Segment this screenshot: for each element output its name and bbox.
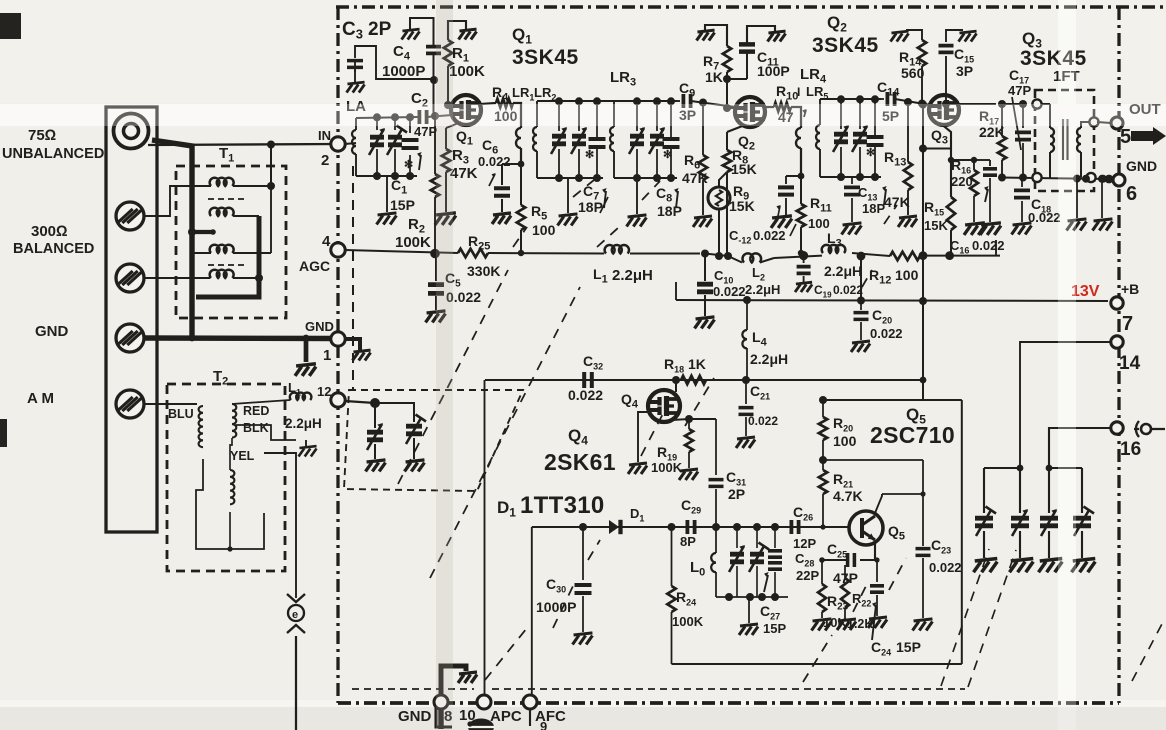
- C4 top ground: [402, 29, 420, 39]
- junction LR1: [518, 161, 525, 168]
- wire APC: [484, 380, 486, 695]
- junction C20b: [857, 252, 866, 261]
- svg-text:GND: GND: [1126, 158, 1157, 174]
- pin IN 2: [331, 137, 345, 151]
- T1 core line 2: [208, 264, 245, 266]
- junction drain R17: [998, 100, 1006, 108]
- tank LR4 LR5 element var: [840, 99, 842, 129]
- svg-text:5: 5: [1120, 126, 1131, 148]
- svg-text:100: 100: [833, 433, 857, 449]
- T2 winding YEL: [230, 470, 234, 504]
- svg-text:2P: 2P: [728, 486, 745, 502]
- capacitor C2: [419, 110, 426, 124]
- wire C26 to Q5: [799, 526, 849, 528]
- svg-text:0.022: 0.022: [753, 228, 786, 243]
- junction R20 R21: [819, 456, 827, 464]
- junction C4: [430, 76, 438, 84]
- capacitor C23: [922, 494, 924, 546]
- junction C20: [857, 297, 865, 305]
- pin 7: [1111, 297, 1123, 309]
- svg-text:e: e: [292, 609, 298, 621]
- connector blob: [468, 719, 494, 730]
- svg-text:100P: 100P: [757, 63, 790, 79]
- coax connector 75-ohm: [114, 114, 149, 149]
- tank LR3 element cap: [670, 101, 672, 131]
- svg-text:GND: GND: [398, 708, 432, 725]
- resistor R11: [797, 204, 805, 227]
- wire L3 to R12: [852, 253, 890, 256]
- C11 ground: [768, 31, 786, 41]
- svg-text:47P: 47P: [1008, 83, 1031, 98]
- T1 winding 2: [210, 208, 234, 216]
- L0 tank varcap: [736, 527, 738, 548]
- capacitor C4: [426, 47, 441, 54]
- capacitor C10: [704, 254, 706, 282]
- tank LA arrow: [419, 155, 421, 170]
- T1 winding 1 leads: [233, 185, 271, 187]
- inductor L0: [715, 527, 717, 553]
- svg-text:GND: GND: [35, 323, 69, 340]
- resistor R12: [890, 252, 920, 260]
- svg-text:UNBALANCED: UNBALANCED: [2, 146, 104, 162]
- svg-text:✻: ✻: [585, 149, 594, 161]
- tank LR4 LR5 element cap: [874, 99, 876, 129]
- capacitor C11: [739, 44, 755, 51]
- resistor R5: [520, 164, 522, 205]
- svg-text:100: 100: [808, 216, 830, 231]
- scan mark top-left: [0, 13, 21, 39]
- svg-text:3SK45: 3SK45: [812, 34, 879, 57]
- T1 inner dot: [267, 182, 275, 190]
- svg-text:2.2μH: 2.2μH: [824, 263, 862, 279]
- svg-text:330K: 330K: [467, 263, 500, 279]
- R1 top wire: [448, 21, 466, 40]
- svg-text:0.022: 0.022: [929, 560, 962, 575]
- C12 arrow: [778, 206, 780, 216]
- wire C2 to Q1: [427, 115, 452, 117]
- capacitor C26: [791, 520, 798, 534]
- resistor R19: [688, 419, 690, 429]
- osc ground line: [672, 663, 962, 665]
- pin 5 OUT: [1111, 117, 1123, 129]
- T1 right branch dot: [255, 274, 263, 282]
- slash C7: [600, 197, 608, 213]
- wire R12 right: [920, 255, 1000, 257]
- C24 arrow: [872, 605, 876, 640]
- tank LR4 LR5 coil: [819, 99, 821, 125]
- svg-text:18P: 18P: [657, 203, 682, 219]
- ground R16 C16: [964, 223, 985, 235]
- T1 inner vertical: [270, 145, 272, 254]
- resistor R24: [671, 527, 673, 586]
- junction C21: [742, 376, 750, 384]
- capacitor C29: [687, 520, 694, 534]
- svg-text:1K: 1K: [705, 69, 723, 85]
- svg-text:100K: 100K: [672, 614, 704, 629]
- svg-text:BLU: BLU: [168, 407, 194, 421]
- tank LR3 coil: [613, 101, 615, 127]
- screw terminal AM: [116, 390, 144, 418]
- svg-text:2.2μH: 2.2μH: [612, 267, 653, 284]
- C3 top wire: [355, 46, 434, 79]
- pin 16: [1111, 422, 1123, 434]
- gang dashed diagonals: [398, 180, 906, 682]
- T1 winding 4: [210, 270, 234, 278]
- svg-text:1K: 1K: [688, 356, 706, 372]
- capacitor C21 sym: [745, 380, 747, 404]
- svg-text:0.022: 0.022: [870, 326, 903, 341]
- svg-text:A M: A M: [27, 390, 54, 407]
- inductor L1 am: [290, 393, 312, 400]
- svg-text:100K: 100K: [651, 460, 683, 475]
- wire IN to tank: [345, 143, 356, 144]
- tank LR3 rails: [614, 100, 677, 102]
- svg-text:15K: 15K: [729, 198, 755, 214]
- C3 ground: [354, 70, 356, 82]
- tank LA coil: [352, 130, 356, 154]
- tank LA trimmer: [394, 117, 396, 130]
- screw terminal 300-ohm B: [116, 264, 144, 292]
- tank LR4 arrow: [884, 189, 886, 205]
- wire AFC: [531, 527, 533, 695]
- capacitor C25: [848, 553, 855, 567]
- capacitor C12 sym: [785, 176, 787, 184]
- wire YEL out: [264, 453, 296, 598]
- gang trimmer 4: [1081, 468, 1083, 513]
- Q4 source left ground: [638, 412, 648, 462]
- svg-text:2.2μH: 2.2μH: [745, 282, 780, 297]
- svg-text:0.022: 0.022: [833, 283, 863, 297]
- tank LA dots: [373, 113, 381, 121]
- T2 primary winding BLU: [199, 406, 203, 447]
- svg-text:2.2μH: 2.2μH: [750, 351, 788, 367]
- junction LR4: [798, 173, 805, 180]
- T1 winding 3: [210, 245, 234, 253]
- capacitor C28: [774, 527, 776, 548]
- wire BLK to ground: [236, 425, 296, 440]
- resistor R2: [434, 116, 436, 174]
- T2 wiring 2: [230, 438, 232, 470]
- tank LA cap C1: [409, 117, 411, 133]
- screw terminal 300-ohm A: [116, 202, 144, 230]
- tank LA varcap: [376, 117, 378, 130]
- svg-text:14: 14: [1119, 353, 1141, 374]
- ground stub at rail: [304, 338, 309, 362]
- svg-text:2P: 2P: [368, 19, 392, 40]
- inductor LR1 primary: [513, 103, 521, 128]
- tank LR3 element var: [636, 101, 638, 131]
- tank LR3 element var: [656, 101, 658, 131]
- svg-text:0.022: 0.022: [568, 387, 603, 403]
- tuner unit top border: [336, 5, 1166, 9]
- svg-text:47K: 47K: [450, 165, 478, 182]
- mixer bus: [532, 526, 840, 528]
- tuner unit right border: [1117, 7, 1120, 703]
- wire LR3 to C9: [677, 100, 680, 102]
- pin APC: [477, 695, 491, 709]
- L0 ground: [748, 597, 750, 623]
- svg-text:0.022: 0.022: [713, 284, 746, 299]
- pin 6 GND: [1113, 174, 1125, 186]
- shield symbol e: [287, 594, 305, 602]
- wire pin12 right: [345, 401, 375, 403]
- ground drops on output rail: [1073, 175, 1081, 183]
- svg-text:100K: 100K: [449, 63, 485, 80]
- thermistor R9: [719, 172, 727, 188]
- svg-text:IN: IN: [318, 128, 331, 143]
- resistor R6: [699, 99, 707, 107]
- svg-text:✻: ✻: [866, 147, 875, 159]
- tank LR4 LR5 element var: [859, 99, 861, 129]
- T1 junction dots: [188, 228, 196, 236]
- B rail: [676, 300, 1108, 301]
- junction R24: [668, 523, 676, 531]
- svg-text:1000P: 1000P: [536, 599, 576, 615]
- capacitor C17 trimmer: [1022, 104, 1024, 128]
- resistor R15: [947, 197, 955, 230]
- OUT arrow: [1131, 127, 1166, 145]
- bottom dashed line: [352, 688, 474, 690]
- T2 bottom dot: [227, 546, 232, 551]
- R7 top ground: [697, 30, 715, 40]
- junction pin12: [370, 398, 380, 408]
- tank LR1 LR2 coil: [536, 101, 538, 127]
- L0 tank trimmer: [756, 527, 758, 548]
- resistor R25: [458, 249, 488, 257]
- dashed inner boundary: [352, 166, 354, 389]
- wire Q3 source net: [940, 123, 951, 197]
- wire Q3 drain: [959, 103, 996, 105]
- svg-text:560: 560: [901, 65, 925, 81]
- capacitor C13: [851, 177, 853, 184]
- svg-text:47P: 47P: [414, 124, 437, 139]
- tank LR1 LR2 element var: [578, 101, 580, 131]
- transformer T2 dashed box: [167, 384, 285, 571]
- T2 wiring: [196, 459, 264, 549]
- svg-text:7: 7: [1122, 313, 1133, 335]
- svg-text:100: 100: [532, 222, 556, 238]
- svg-text:+B: +B: [1121, 281, 1139, 297]
- pin AFC: [523, 695, 537, 709]
- dashed gang box left: [344, 390, 523, 491]
- wire AM to T2: [144, 403, 197, 405]
- L0 tank bottom rail: [716, 596, 788, 598]
- vertical feed 923: [922, 104, 924, 400]
- svg-text:3P: 3P: [956, 63, 973, 79]
- capacitor C19: [803, 256, 805, 263]
- gang trimmer 1: [983, 468, 985, 513]
- tank LR4 LR5 rails: [820, 98, 881, 100]
- inductor L1 rail: [605, 245, 629, 253]
- scan mark left edge: [0, 419, 7, 447]
- svg-text:16: 16: [1120, 439, 1141, 460]
- resistor R22: [860, 559, 877, 561]
- tank LR1 LR2 element cap: [596, 101, 598, 131]
- C16 arrow: [985, 189, 988, 202]
- R22 stub: [844, 565, 846, 578]
- inductor LR4 primary: [791, 107, 801, 128]
- pin 8 gnd: [434, 695, 448, 709]
- svg-text:220: 220: [951, 174, 973, 189]
- connector at pin16: [1141, 424, 1151, 434]
- T1 thick bus left: [191, 146, 193, 338]
- thick wire connector shield down: [152, 140, 192, 338]
- junction pin6: [1082, 175, 1090, 183]
- tank LR1 arrow: [604, 191, 606, 208]
- wire 75-ohm feed: [148, 144, 338, 145]
- junction C19: [799, 251, 808, 260]
- svg-text:I: I: [797, 85, 800, 99]
- tank LA bottom rail: [356, 175, 417, 177]
- junction C30: [579, 523, 587, 531]
- thick ground rail: [144, 335, 338, 341]
- osc box top: [823, 399, 962, 401]
- svg-text:3SK45: 3SK45: [1020, 47, 1087, 70]
- capacitor C9: [683, 94, 690, 108]
- junction C10: [701, 250, 709, 258]
- inductor L4: [746, 300, 748, 330]
- inductor L2: [743, 253, 762, 262]
- svg-text:8P: 8P: [680, 534, 696, 549]
- tuner unit left border: [336, 7, 339, 703]
- wire C25 left: [822, 559, 846, 561]
- svg-text:0.022: 0.022: [1028, 210, 1061, 225]
- resistor R3: [446, 122, 461, 128]
- AGC rail: [345, 250, 458, 253]
- wire RED out: [232, 400, 290, 404]
- svg-text:✻: ✻: [404, 159, 413, 171]
- R3 ground: [435, 213, 456, 225]
- svg-text:0.022: 0.022: [478, 154, 511, 169]
- resistor R14: [918, 100, 926, 108]
- pin GND 1: [331, 332, 345, 346]
- junction L4: [743, 296, 751, 304]
- LR4 arrow: [804, 110, 806, 117]
- svg-text:15P: 15P: [896, 639, 921, 655]
- C4 top wire: [410, 18, 434, 46]
- T1 core line 1: [208, 198, 245, 200]
- scan dark band overlay: [436, 0, 453, 730]
- wire Q2 drain: [766, 106, 774, 108]
- tank LR3 arrow: [676, 191, 678, 208]
- T2 winding RED-BLK: [232, 404, 236, 438]
- inductor L3: [822, 245, 846, 253]
- svg-text:18P: 18P: [862, 201, 885, 216]
- svg-text:3SK45: 3SK45: [512, 46, 579, 69]
- T1 thick right branch: [196, 216, 259, 297]
- scan light band overlay v: [1058, 0, 1076, 730]
- capacitor C3: [354, 59, 356, 72]
- C4 bottom wire: [432, 54, 434, 116]
- svg-text:2.2μH: 2.2μH: [285, 416, 322, 431]
- svg-text:15P: 15P: [390, 197, 415, 213]
- 1FT terminals: [1032, 99, 1041, 108]
- ground right of pin1: [345, 339, 360, 350]
- wire rail to L2: [705, 254, 728, 257]
- capacitor C18: [1021, 176, 1023, 178]
- wire tap down to T1: [270, 145, 272, 185]
- dashed gang lines right: [941, 549, 989, 686]
- T1 winding 4 lead: [233, 277, 259, 279]
- svg-text:✻: ✻: [663, 149, 672, 161]
- T1 winding 2 lead: [233, 215, 259, 217]
- wire pin14: [1020, 342, 1110, 466]
- trimmer cap A: [374, 403, 376, 428]
- resistor R16: [970, 170, 978, 196]
- emitter wire: [860, 541, 875, 560]
- pin 4 AGC: [331, 243, 345, 257]
- svg-text:1000P: 1000P: [382, 63, 425, 80]
- svg-text:15P: 15P: [763, 621, 786, 636]
- capacitor C24: [874, 557, 879, 562]
- gang wires right: [984, 467, 1020, 469]
- resistor R17: [1001, 104, 1003, 136]
- wire 300A to T1: [144, 186, 210, 216]
- svg-text:1TT310: 1TT310: [520, 492, 605, 519]
- resistor R4: [496, 99, 513, 107]
- mosfet Q4: [648, 390, 680, 422]
- wire gate2 Q1: [448, 104, 452, 106]
- svg-text:6: 6: [1126, 183, 1137, 205]
- resistor R20: [819, 396, 827, 404]
- wire to R16 C16: [951, 159, 974, 161]
- svg-text:4.7K: 4.7K: [833, 488, 863, 504]
- mosfet Q2: [735, 97, 765, 127]
- scan light band overlay: [0, 104, 1166, 126]
- capacitor C16: [983, 169, 997, 175]
- junction Q4 gate: [672, 376, 680, 384]
- antenna terminal strip: [106, 107, 157, 532]
- osc box right: [961, 400, 963, 664]
- svg-text:15K: 15K: [924, 218, 948, 233]
- ground symbol at rail: [295, 364, 316, 376]
- wire sec to out: [1097, 122, 1111, 123]
- svg-text:22P: 22P: [796, 568, 819, 583]
- svg-text:0.022: 0.022: [972, 238, 1005, 253]
- gang trimmer 3: [1048, 468, 1050, 513]
- trimmer cap B: [375, 403, 414, 422]
- wire drain to C17: [1002, 103, 1023, 105]
- svg-text:22K: 22K: [979, 124, 1005, 140]
- tuner unit bottom border: [338, 701, 1119, 705]
- svg-text:12P: 12P: [793, 536, 816, 551]
- tank LR1 LR2 ground: [567, 178, 569, 213]
- collector wire: [823, 459, 923, 461]
- capacitor C30: [582, 527, 584, 580]
- 1FT secondary: [1077, 128, 1081, 152]
- wire shield down: [295, 636, 297, 730]
- svg-text:18P: 18P: [578, 199, 603, 215]
- svg-text:BALANCED: BALANCED: [13, 241, 94, 257]
- wire R7 C11 to gate: [727, 78, 747, 80]
- capacitor C15: [942, 100, 950, 108]
- ground rail junction: [189, 335, 196, 342]
- C6 arrow: [489, 174, 495, 186]
- output rail: [1002, 178, 1108, 180]
- C27 arrow: [764, 575, 768, 592]
- svg-text:100: 100: [895, 267, 919, 283]
- screw terminal GND: [116, 324, 144, 352]
- osc supply wire: [485, 379, 923, 381]
- resistor R10: [774, 103, 791, 111]
- resistor R23: [821, 560, 823, 584]
- tank LR1 LR2 element var: [558, 101, 560, 131]
- 1FT dashed box: [1035, 90, 1094, 191]
- C6 ground: [492, 213, 511, 224]
- tank LR1 LR2 rails: [537, 100, 603, 102]
- capacitor C20: [860, 300, 862, 310]
- 1FT core: [1062, 119, 1064, 160]
